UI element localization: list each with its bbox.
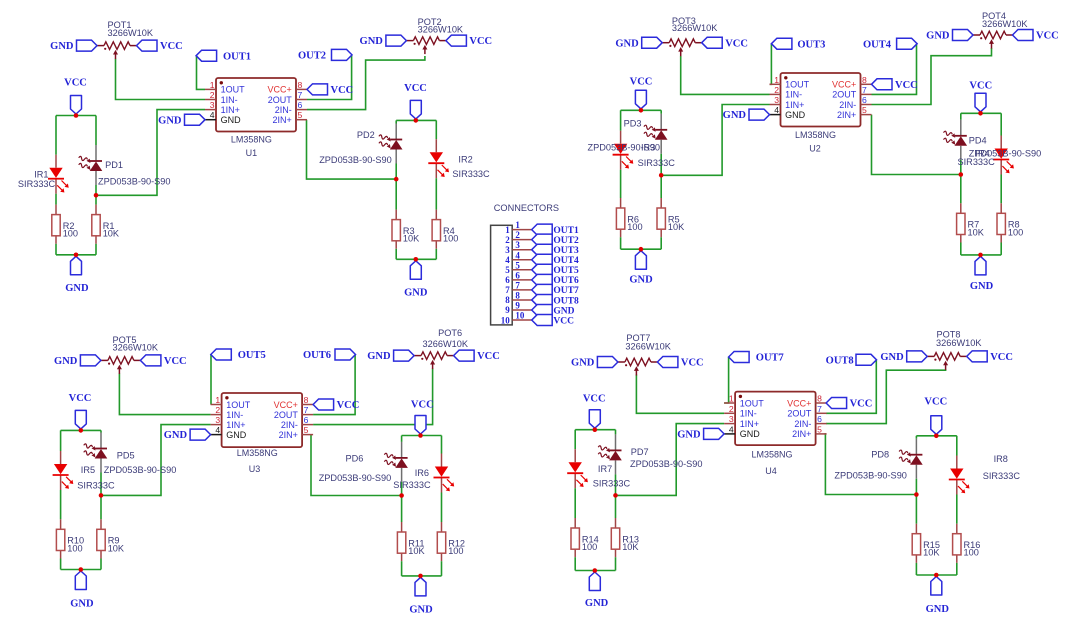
svg-text:1IN+: 1IN+ bbox=[740, 419, 759, 429]
svg-text:7: 7 bbox=[298, 90, 303, 100]
svg-text:GND: GND bbox=[404, 287, 428, 298]
svg-text:OUT6: OUT6 bbox=[553, 276, 579, 286]
svg-text:GND: GND bbox=[629, 275, 653, 286]
svg-text:1: 1 bbox=[215, 395, 220, 405]
svg-text:VCC: VCC bbox=[1036, 31, 1059, 42]
svg-text:1IN+: 1IN+ bbox=[785, 100, 804, 110]
svg-text:2IN+: 2IN+ bbox=[273, 115, 292, 125]
svg-text:VCC: VCC bbox=[160, 41, 183, 52]
svg-text:GND: GND bbox=[677, 430, 701, 441]
svg-text:1IN+: 1IN+ bbox=[221, 105, 240, 115]
svg-text:OUT5: OUT5 bbox=[553, 266, 579, 276]
svg-text:U2: U2 bbox=[809, 143, 821, 153]
svg-text:1: 1 bbox=[210, 80, 215, 90]
svg-text:VCC: VCC bbox=[583, 394, 606, 405]
svg-text:6: 6 bbox=[817, 414, 822, 424]
svg-text:10K: 10K bbox=[668, 222, 685, 232]
svg-text:OUT1: OUT1 bbox=[553, 226, 579, 236]
svg-text:LM358NG: LM358NG bbox=[237, 448, 278, 458]
svg-text:VCC: VCC bbox=[630, 77, 653, 88]
svg-text:VCC: VCC bbox=[69, 393, 92, 404]
svg-text:10K: 10K bbox=[103, 229, 120, 239]
svg-text:3266W10K: 3266W10K bbox=[418, 25, 464, 35]
svg-text:3266W10K: 3266W10K bbox=[108, 28, 154, 38]
svg-text:2: 2 bbox=[515, 230, 520, 240]
svg-text:U3: U3 bbox=[249, 464, 261, 474]
svg-text:IR5: IR5 bbox=[81, 465, 95, 475]
svg-text:9: 9 bbox=[505, 305, 510, 315]
svg-text:6: 6 bbox=[862, 95, 867, 105]
svg-text:SIR333C: SIR333C bbox=[958, 157, 996, 167]
svg-text:8: 8 bbox=[298, 80, 303, 90]
svg-text:1: 1 bbox=[729, 394, 734, 404]
svg-text:GND: GND bbox=[880, 352, 904, 363]
svg-text:4: 4 bbox=[505, 255, 510, 265]
svg-text:4: 4 bbox=[774, 105, 779, 115]
svg-text:7: 7 bbox=[817, 404, 822, 414]
svg-text:4: 4 bbox=[515, 250, 520, 260]
svg-text:5: 5 bbox=[304, 425, 309, 435]
svg-text:2: 2 bbox=[774, 85, 779, 95]
svg-text:IR1: IR1 bbox=[34, 169, 48, 179]
svg-text:2: 2 bbox=[729, 404, 734, 414]
svg-text:100: 100 bbox=[67, 543, 82, 553]
svg-text:3266W10K: 3266W10K bbox=[625, 342, 671, 352]
svg-text:3: 3 bbox=[505, 245, 510, 255]
svg-text:OUT2: OUT2 bbox=[553, 236, 579, 246]
svg-text:IR6: IR6 bbox=[415, 468, 429, 478]
svg-text:1IN+: 1IN+ bbox=[226, 420, 245, 430]
svg-text:PD5: PD5 bbox=[117, 450, 135, 460]
svg-text:1IN-: 1IN- bbox=[221, 95, 238, 105]
svg-text:100: 100 bbox=[582, 542, 597, 552]
svg-text:VCC: VCC bbox=[969, 80, 992, 91]
svg-text:VCC: VCC bbox=[469, 36, 492, 47]
svg-text:2IN-: 2IN- bbox=[281, 420, 298, 430]
svg-text:2OUT: 2OUT bbox=[787, 409, 812, 419]
svg-text:1IN-: 1IN- bbox=[740, 409, 757, 419]
svg-text:IR8: IR8 bbox=[994, 454, 1008, 464]
svg-text:6: 6 bbox=[515, 270, 520, 280]
svg-text:3266W10K: 3266W10K bbox=[936, 338, 982, 348]
svg-text:VCC: VCC bbox=[411, 400, 434, 411]
svg-text:OUT5: OUT5 bbox=[238, 350, 266, 361]
svg-text:PD1: PD1 bbox=[105, 160, 123, 170]
svg-text:VCC: VCC bbox=[850, 399, 873, 410]
svg-text:VCC: VCC bbox=[477, 351, 500, 362]
svg-text:3266W10K: 3266W10K bbox=[672, 23, 718, 33]
svg-text:GND: GND bbox=[571, 358, 595, 369]
svg-text:OUT8: OUT8 bbox=[826, 355, 854, 366]
svg-text:VCC: VCC bbox=[331, 85, 354, 96]
svg-text:1IN-: 1IN- bbox=[226, 410, 243, 420]
svg-text:OUT7: OUT7 bbox=[756, 353, 784, 364]
svg-text:5: 5 bbox=[515, 260, 520, 270]
svg-text:10: 10 bbox=[501, 315, 511, 325]
svg-text:GND: GND bbox=[226, 430, 247, 440]
svg-text:8: 8 bbox=[505, 295, 510, 305]
svg-text:3: 3 bbox=[515, 240, 520, 250]
svg-text:2: 2 bbox=[215, 405, 220, 415]
svg-text:IR3: IR3 bbox=[641, 143, 655, 153]
svg-text:GND: GND bbox=[360, 36, 384, 47]
svg-text:2IN-: 2IN- bbox=[794, 419, 811, 429]
svg-text:VCC: VCC bbox=[64, 78, 87, 89]
svg-text:1OUT: 1OUT bbox=[221, 85, 246, 95]
svg-text:LM358NG: LM358NG bbox=[795, 130, 836, 140]
svg-text:4: 4 bbox=[729, 424, 734, 434]
svg-text:7: 7 bbox=[505, 285, 510, 295]
svg-text:VCC: VCC bbox=[895, 80, 918, 91]
svg-text:ZPD053B-90-S90: ZPD053B-90-S90 bbox=[104, 465, 177, 475]
svg-text:GND: GND bbox=[221, 115, 242, 125]
svg-text:3266W10K: 3266W10K bbox=[982, 19, 1028, 29]
svg-text:3266W10K: 3266W10K bbox=[423, 339, 469, 349]
svg-text:3: 3 bbox=[729, 414, 734, 424]
svg-text:8: 8 bbox=[862, 75, 867, 85]
svg-text:PD4: PD4 bbox=[969, 135, 987, 145]
svg-text:GND: GND bbox=[585, 598, 609, 609]
svg-text:GND: GND bbox=[65, 283, 89, 294]
svg-text:10K: 10K bbox=[968, 227, 985, 237]
svg-text:U4: U4 bbox=[765, 466, 777, 476]
svg-text:PD2: PD2 bbox=[357, 130, 375, 140]
svg-text:VCC: VCC bbox=[990, 352, 1013, 363]
svg-text:GND: GND bbox=[54, 356, 78, 367]
svg-text:100: 100 bbox=[63, 229, 78, 239]
svg-text:1OUT: 1OUT bbox=[740, 398, 765, 408]
svg-text:1IN-: 1IN- bbox=[785, 90, 802, 100]
svg-text:ZPD053B-90-S90: ZPD053B-90-S90 bbox=[630, 459, 703, 469]
svg-text:4: 4 bbox=[215, 425, 220, 435]
svg-text:ZPD053B-90-S90: ZPD053B-90-S90 bbox=[834, 470, 907, 480]
svg-text:9: 9 bbox=[515, 301, 520, 311]
svg-text:3266W10K: 3266W10K bbox=[113, 342, 159, 352]
svg-text:VCC: VCC bbox=[725, 38, 748, 49]
svg-text:LM358NG: LM358NG bbox=[231, 135, 272, 145]
svg-text:2IN+: 2IN+ bbox=[792, 429, 811, 439]
svg-text:10K: 10K bbox=[408, 546, 425, 556]
svg-text:6: 6 bbox=[298, 100, 303, 110]
svg-text:10K: 10K bbox=[108, 543, 125, 553]
svg-text:IR7: IR7 bbox=[598, 464, 612, 474]
svg-text:5: 5 bbox=[817, 424, 822, 434]
svg-text:POT6: POT6 bbox=[438, 328, 462, 338]
svg-text:8: 8 bbox=[304, 395, 309, 405]
svg-text:IR2: IR2 bbox=[458, 154, 472, 164]
svg-text:PD7: PD7 bbox=[631, 447, 649, 457]
svg-text:OUT3: OUT3 bbox=[553, 246, 579, 256]
svg-text:GND: GND bbox=[785, 110, 806, 120]
svg-text:100: 100 bbox=[964, 548, 979, 558]
svg-text:SIR333C: SIR333C bbox=[452, 169, 490, 179]
svg-text:VCC: VCC bbox=[337, 400, 360, 411]
svg-text:GND: GND bbox=[970, 281, 994, 292]
svg-text:1: 1 bbox=[505, 225, 510, 235]
svg-text:2IN+: 2IN+ bbox=[837, 110, 856, 120]
svg-text:6: 6 bbox=[505, 275, 510, 285]
svg-text:OUT4: OUT4 bbox=[863, 39, 892, 50]
svg-text:10K: 10K bbox=[403, 234, 420, 244]
svg-text:VCC: VCC bbox=[164, 356, 187, 367]
svg-text:2IN-: 2IN- bbox=[275, 105, 292, 115]
svg-text:ZPD053B-90-S90: ZPD053B-90-S90 bbox=[98, 177, 171, 187]
svg-text:GND: GND bbox=[409, 604, 433, 615]
svg-text:1: 1 bbox=[515, 220, 520, 230]
svg-text:GND: GND bbox=[740, 429, 761, 439]
svg-text:6: 6 bbox=[304, 415, 309, 425]
svg-text:100: 100 bbox=[443, 234, 458, 244]
svg-text:VCC+: VCC+ bbox=[268, 85, 292, 95]
svg-text:ZPD053B-90-S90: ZPD053B-90-S90 bbox=[319, 473, 392, 483]
svg-text:5: 5 bbox=[862, 105, 867, 115]
svg-text:OUT6: OUT6 bbox=[303, 350, 331, 361]
svg-text:GND: GND bbox=[723, 110, 747, 121]
svg-text:SIR333C: SIR333C bbox=[393, 480, 431, 490]
svg-text:CONNECTORS: CONNECTORS bbox=[494, 203, 559, 213]
svg-text:10K: 10K bbox=[923, 548, 940, 558]
svg-text:3: 3 bbox=[774, 95, 779, 105]
svg-text:GND: GND bbox=[50, 41, 74, 52]
svg-text:2IN+: 2IN+ bbox=[279, 430, 298, 440]
svg-text:VCC: VCC bbox=[553, 316, 574, 326]
svg-text:2IN-: 2IN- bbox=[839, 100, 856, 110]
svg-text:VCC: VCC bbox=[924, 397, 947, 408]
svg-text:LM358NG: LM358NG bbox=[751, 449, 792, 459]
svg-text:SIR333C: SIR333C bbox=[18, 179, 56, 189]
svg-text:100: 100 bbox=[627, 222, 642, 232]
svg-text:7: 7 bbox=[862, 85, 867, 95]
svg-text:2OUT: 2OUT bbox=[832, 90, 857, 100]
svg-text:SIR333C: SIR333C bbox=[77, 481, 115, 491]
svg-text:100: 100 bbox=[1008, 227, 1023, 237]
svg-text:VCC: VCC bbox=[404, 83, 427, 94]
svg-text:10: 10 bbox=[515, 311, 525, 321]
svg-text:10K: 10K bbox=[622, 542, 639, 552]
svg-text:SIR333C: SIR333C bbox=[983, 471, 1021, 481]
svg-text:2OUT: 2OUT bbox=[274, 410, 299, 420]
svg-text:SIR333C: SIR333C bbox=[638, 158, 676, 168]
svg-text:GND: GND bbox=[158, 115, 182, 126]
svg-text:2: 2 bbox=[210, 90, 215, 100]
svg-text:OUT7: OUT7 bbox=[553, 286, 579, 296]
svg-text:VCC+: VCC+ bbox=[787, 398, 811, 408]
svg-text:GND: GND bbox=[70, 599, 94, 610]
svg-text:OUT8: OUT8 bbox=[553, 296, 579, 306]
svg-text:OUT1: OUT1 bbox=[223, 51, 251, 62]
svg-text:GND: GND bbox=[553, 306, 574, 316]
svg-text:7: 7 bbox=[304, 405, 309, 415]
svg-text:2: 2 bbox=[505, 235, 510, 245]
svg-text:5: 5 bbox=[505, 265, 510, 275]
svg-text:SIR333C: SIR333C bbox=[593, 478, 631, 488]
svg-text:1OUT: 1OUT bbox=[226, 400, 251, 410]
svg-text:2OUT: 2OUT bbox=[268, 95, 293, 105]
svg-text:U1: U1 bbox=[246, 148, 258, 158]
svg-text:3: 3 bbox=[215, 415, 220, 425]
svg-text:GND: GND bbox=[367, 351, 391, 362]
svg-text:4: 4 bbox=[210, 110, 215, 120]
svg-text:VCC+: VCC+ bbox=[274, 400, 298, 410]
svg-text:1OUT: 1OUT bbox=[785, 80, 810, 90]
svg-text:OUT4: OUT4 bbox=[553, 256, 579, 266]
svg-text:7: 7 bbox=[515, 280, 520, 290]
svg-text:PD8: PD8 bbox=[871, 450, 889, 460]
svg-text:GND: GND bbox=[164, 430, 188, 441]
svg-text:3: 3 bbox=[210, 100, 215, 110]
svg-text:100: 100 bbox=[448, 546, 463, 556]
svg-text:VCC: VCC bbox=[681, 358, 704, 369]
svg-text:PD3: PD3 bbox=[624, 118, 642, 128]
svg-text:GND: GND bbox=[926, 31, 950, 42]
svg-text:5: 5 bbox=[298, 110, 303, 120]
svg-text:PD6: PD6 bbox=[346, 453, 364, 463]
svg-text:8: 8 bbox=[817, 394, 822, 404]
svg-text:VCC+: VCC+ bbox=[832, 80, 856, 90]
svg-text:ZPD053B-90-S90: ZPD053B-90-S90 bbox=[319, 155, 392, 165]
svg-text:GND: GND bbox=[926, 604, 950, 615]
svg-text:OUT3: OUT3 bbox=[797, 39, 825, 50]
svg-text:OUT2: OUT2 bbox=[298, 51, 326, 62]
svg-text:1: 1 bbox=[774, 75, 779, 85]
svg-text:8: 8 bbox=[515, 290, 520, 300]
svg-text:GND: GND bbox=[615, 38, 639, 49]
